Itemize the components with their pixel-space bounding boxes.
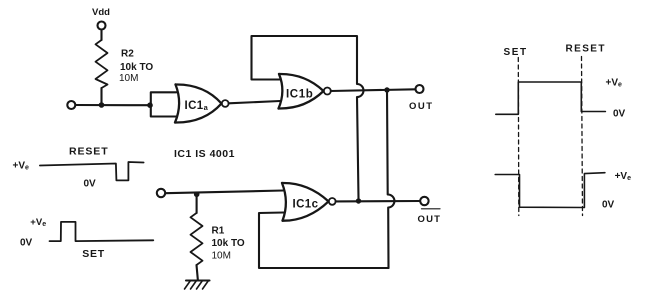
svg-text:SET: SET — [504, 47, 528, 58]
svg-text:OUT: OUT — [409, 101, 434, 112]
svg-text:RESET: RESET — [69, 146, 109, 158]
svg-text:10k TO: 10k TO — [212, 238, 245, 249]
wire input to IC1a — [76, 104, 150, 106]
waveform OUT timing — [496, 82, 606, 114]
svg-text:IC1 IS 4001: IC1 IS 4001 — [174, 148, 235, 160]
wire IC1b output to OUT — [331, 89, 416, 91]
ground — [185, 281, 210, 290]
terminal reset input — [67, 101, 75, 109]
waveform set pulse — [50, 222, 154, 241]
junction on OUT wire — [384, 87, 389, 92]
junction node A — [99, 102, 105, 108]
waveform reset pulse — [40, 162, 144, 180]
inverter bubble IC1c — [329, 198, 336, 205]
wire bottom feedback to IC1c lower input — [259, 213, 389, 269]
inverter bubble IC1a — [222, 100, 229, 107]
value label R1 10k TO 10M — [212, 226, 245, 262]
svg-text:+Ve: +Ve — [30, 217, 46, 228]
svg-text:IC1a: IC1a — [185, 100, 209, 112]
terminal OUTbar — [420, 197, 428, 205]
svg-text:+Ve: +Ve — [606, 78, 623, 89]
wire IC1c output to OUTbar — [336, 200, 420, 202]
svg-text:IC1b: IC1b — [286, 89, 313, 101]
wire IC1a out to IC1b in — [229, 101, 280, 103]
svg-text:Vdd: Vdd — [92, 7, 110, 18]
svg-text:+Ve: +Ve — [615, 171, 632, 182]
op-amp gate U IC1a body — [175, 84, 222, 122]
svg-text:RESET: RESET — [566, 44, 606, 55]
svg-text:0V: 0V — [602, 200, 615, 211]
terminal Vdd — [98, 22, 106, 30]
junction at R1 top — [194, 192, 200, 198]
svg-text:SET: SET — [82, 248, 105, 260]
gate IC1b body — [279, 74, 324, 109]
wire feedback IC1b-out down with hop to bottom loop — [387, 90, 394, 268]
svg-text:OUT: OUT — [418, 214, 442, 225]
waveform OUTbar timing — [495, 173, 605, 208]
value label R2 10k TO 10M — [119, 49, 153, 85]
svg-text:0V: 0V — [20, 238, 33, 249]
wire junction to R1 — [196, 194, 198, 213]
inverter bubble IC1b — [324, 88, 331, 95]
svg-text:+Ve: +Ve — [13, 161, 30, 172]
wire feedback IC1c-out to IC1b top input with hop — [252, 36, 364, 198]
resistor R2 — [96, 40, 108, 88]
svg-text:0V: 0V — [84, 179, 97, 190]
resistor R1 — [191, 213, 203, 265]
terminal set input — [157, 189, 165, 197]
junction at IC1a input — [147, 102, 153, 108]
timing dashed line SET — [517, 58, 520, 216]
svg-text:R2: R2 — [121, 49, 134, 60]
wire Vdd to R2 — [100, 30, 102, 40]
label OUTbar — [418, 209, 442, 225]
svg-text:0V: 0V — [613, 109, 626, 120]
svg-text:10M: 10M — [212, 251, 231, 262]
wire IC1a input bracket — [151, 92, 177, 116]
junction on OUTbar wire — [356, 198, 361, 203]
svg-text:10M: 10M — [119, 73, 138, 84]
terminal OUT — [416, 85, 424, 93]
svg-text:10k TO: 10k TO — [120, 62, 153, 73]
wire set input to IC1c — [165, 191, 283, 194]
wire R1 to ground — [197, 265, 198, 281]
svg-text:IC1c: IC1c — [293, 198, 319, 210]
gate IC1c body — [282, 183, 329, 221]
wire R2 to node A — [100, 88, 102, 105]
svg-text:R1: R1 — [212, 226, 225, 237]
timing dashed line RESET — [582, 57, 583, 216]
